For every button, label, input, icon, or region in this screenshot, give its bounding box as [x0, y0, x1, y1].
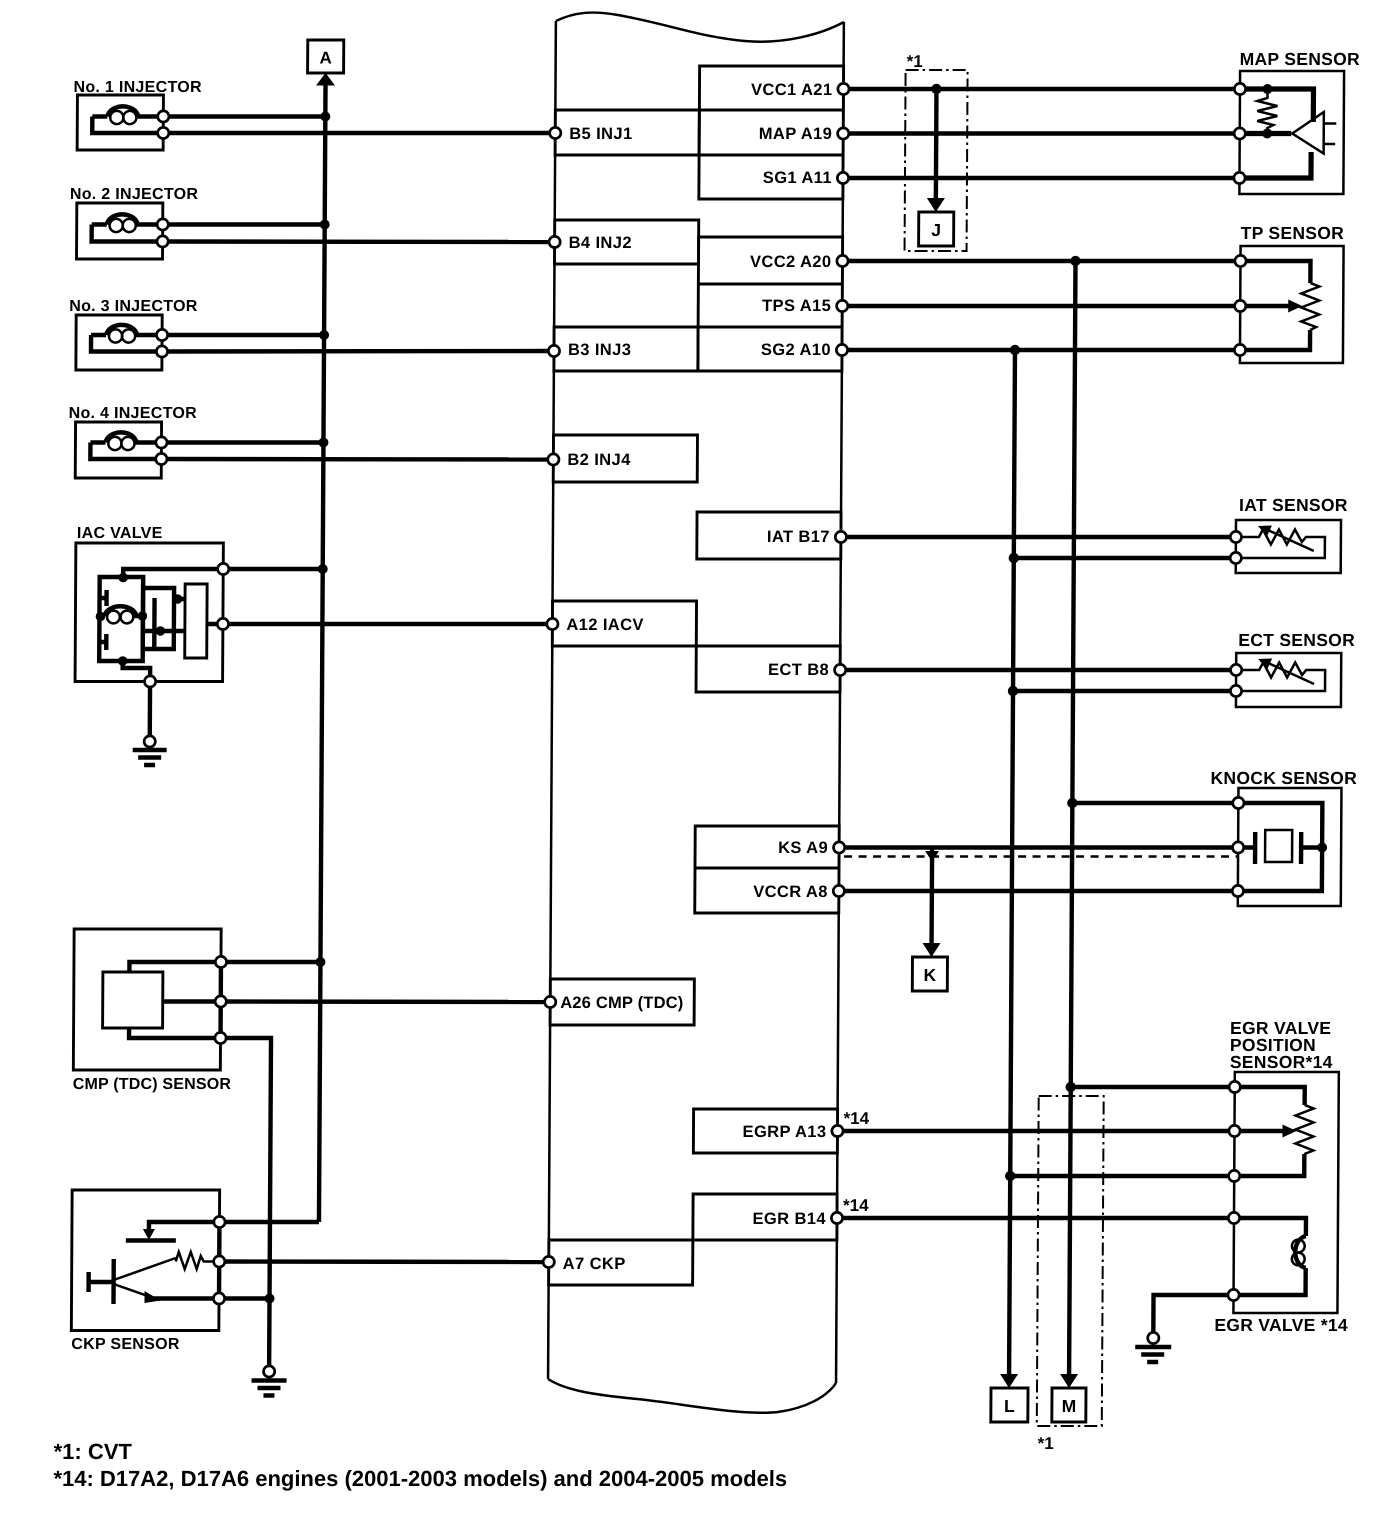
- TP sensor body: [1240, 246, 1344, 363]
- wire pin ECT B8 to ECT sensor: [840, 668, 1236, 672]
- junction L-line ECT: [1008, 686, 1018, 696]
- EGR pot resistor: [1295, 1105, 1313, 1154]
- IAC coil: [100, 606, 142, 616]
- injector No.3 body: [76, 315, 162, 370]
- wire CKP top terminal to A-line (corner): [219, 1220, 319, 1224]
- junction L-line on SG2 wire: [1010, 345, 1020, 355]
- EGR valve assembly body: [1233, 1072, 1338, 1313]
- ECT terminal circles: [1231, 664, 1242, 675]
- MAP sensor terminal circles: [1234, 83, 1245, 94]
- MAP amp output leads: [1324, 122, 1337, 125]
- wire CMP bottom terminal to ground bus: [219, 1038, 271, 1366]
- svg-text:ECT B8: ECT B8: [768, 661, 829, 679]
- MAP sensor body: [1239, 71, 1344, 194]
- svg-text:*1: CVT: *1: CVT: [54, 1439, 133, 1464]
- CKP terminal edge line: [217, 1216, 222, 1304]
- junction M-line on VCC2 wire: [1070, 256, 1080, 266]
- CMP terminal edge line: [218, 956, 223, 1044]
- svg-text:IAT SENSOR: IAT SENSOR: [1239, 495, 1348, 515]
- MAP amplifier triangle: [1292, 112, 1324, 154]
- L-line vertical bus (SG2 branch): [1009, 350, 1015, 1374]
- knock sensor body: [1238, 788, 1342, 906]
- pin box B5 INJ1: [555, 110, 699, 155]
- svg-text:B5 INJ1: B5 INJ1: [569, 125, 632, 143]
- page connector box L: [991, 1388, 1028, 1422]
- CMP (TDC) sensor body: [73, 929, 221, 1070]
- wire pin EGRP A13 to EGR pot wiper: [837, 1129, 1234, 1133]
- pin circle A7 CKP: [543, 1256, 554, 1267]
- IAT terminal circles: [1230, 531, 1241, 542]
- pin circles VCC2/TPS/SG2: [837, 255, 848, 266]
- svg-text:B4 INJ2: B4 INJ2: [569, 234, 632, 252]
- pin box IAT B17: [697, 512, 841, 559]
- pin box B3 INJ3: [554, 327, 698, 371]
- wire pin VCC2 A20 to TP sensor: [842, 259, 1240, 263]
- svg-text:No. 1 INJECTOR: No. 1 INJECTOR: [73, 79, 202, 96]
- svg-text:B2 INJ4: B2 INJ4: [567, 451, 631, 469]
- IAC inner top feed wire: [123, 569, 223, 578]
- svg-text:K: K: [924, 965, 937, 985]
- wire CKP bottom terminal to ground bus: [219, 1296, 270, 1300]
- svg-text:TP SENSOR: TP SENSOR: [1241, 223, 1345, 243]
- wire CMP top terminal to A-line: [221, 960, 321, 964]
- arrowhead pointing up into box A: [316, 73, 335, 86]
- ECM/PCM band torn-paper bottom edge: [548, 1379, 836, 1413]
- svg-text:ECT SENSOR: ECT SENSOR: [1238, 630, 1355, 650]
- page connector box M: [1052, 1388, 1086, 1422]
- CVT dash-dot box *1 bottom: [1037, 1096, 1104, 1426]
- wire injector No.4 upper terminal to A-line: [161, 440, 323, 444]
- IAC inner bottom wire to case terminal: [123, 661, 151, 682]
- CMP middle lead: [163, 999, 221, 1003]
- junction knock right node: [1317, 843, 1327, 853]
- injector No.1 body: [77, 95, 163, 150]
- svg-text:MAP SENSOR: MAP SENSOR: [1240, 49, 1361, 69]
- CKP coil resistor zigzag: [114, 1258, 176, 1280]
- junction M-line knock top: [1067, 798, 1077, 808]
- injector No.1 coil: [92, 106, 163, 116]
- injector No.2 body: [77, 203, 163, 259]
- CMP bottom lead: [129, 1028, 221, 1038]
- svg-text:B3 INJ3: B3 INJ3: [568, 341, 631, 359]
- arrowhead into box L: [1000, 1374, 1018, 1388]
- pin box ECT B8: [696, 646, 840, 692]
- svg-text:*14: *14: [843, 1196, 869, 1215]
- IAC actuator output wire to terminal: [207, 622, 223, 626]
- pin circles EGRP A13 / EGR B14: [832, 1125, 843, 1136]
- IAC driver bar upper-left: [100, 590, 107, 606]
- terminal circles injector No.2: [157, 219, 168, 230]
- knock element leads: [1238, 845, 1255, 849]
- junction L-line IAT: [1009, 553, 1019, 563]
- svg-text:*14: *14: [844, 1109, 870, 1128]
- EGR solenoid return lead: [1234, 1268, 1306, 1295]
- EGR solenoid feed lead: [1234, 1218, 1306, 1236]
- EGR ground wire: [1153, 1295, 1233, 1332]
- MAP resistor junction top: [1262, 84, 1272, 94]
- J branch wire: [934, 89, 939, 198]
- CKP core bar: [111, 1259, 116, 1304]
- pin circle B5 INJ1: [550, 127, 561, 138]
- wire injector No.4 lower terminal to pin B2 INJ4: [161, 457, 553, 462]
- svg-text:SG2 A10: SG2 A10: [761, 341, 831, 359]
- IAC wire inner frame to actuator lower: [143, 629, 185, 633]
- wire L-line to EGR pot bottom: [1010, 1174, 1234, 1178]
- pin box B2 INJ4: [553, 435, 697, 482]
- svg-text:*1: *1: [907, 52, 923, 71]
- svg-text:A: A: [319, 49, 331, 68]
- CKP bottom lead: [150, 1296, 220, 1300]
- injector No.2 return loop wire: [92, 225, 163, 242]
- ECT thermistor zigzag: [1236, 663, 1325, 692]
- connector pin box group KS/VCCR: [695, 826, 840, 913]
- wire pin SG2 A10 to TP sensor: [842, 348, 1240, 352]
- IAT thermistor arrow: [1269, 531, 1314, 552]
- wire pin KS A9 to knock sensor: [839, 845, 1238, 849]
- page connector box J: [919, 212, 954, 246]
- knock element left plate: [1253, 832, 1258, 864]
- IAC inner frame second: [143, 588, 174, 649]
- svg-text:SG1 A11: SG1 A11: [763, 169, 832, 187]
- wire injector No.1 lower terminal to pin B5 INJ1: [163, 131, 555, 135]
- ECT sensor body: [1236, 653, 1341, 707]
- IAC ground symbol: [144, 736, 155, 747]
- wire injector No.2 lower terminal to pin B4 INJ2: [163, 239, 555, 244]
- CMP top lead: [129, 962, 221, 972]
- pin circle A26 CMP (TDC): [545, 996, 556, 1007]
- knock internal bottom wire: [1238, 848, 1322, 892]
- svg-text:SENSOR*14: SENSOR*14: [1230, 1052, 1333, 1072]
- M-line vertical bus (VCC2 branch): [1069, 261, 1075, 1374]
- wire IAC top terminal to A-line: [223, 567, 322, 571]
- svg-text:CMP (TDC) SENSOR: CMP (TDC) SENSOR: [73, 1076, 232, 1093]
- svg-text:VCC1 A21: VCC1 A21: [751, 81, 833, 99]
- knock element crystal square: [1265, 830, 1292, 862]
- wire injector No.3 lower terminal to pin B3 INJ3: [162, 349, 554, 354]
- wire pin SG1 A11 to MAP sensor: [843, 176, 1239, 180]
- knock element right plate: [1299, 832, 1304, 864]
- wire CMP middle terminal to pin A26 CMP (TDC): [221, 999, 551, 1004]
- page connector box A: [308, 40, 344, 73]
- wire injector No.1 upper terminal to A-line: [163, 114, 325, 118]
- svg-text:EGR VALVE *14: EGR VALVE *14: [1214, 1315, 1348, 1335]
- page connector box K: [912, 957, 947, 991]
- svg-text:CKP SENSOR: CKP SENSOR: [71, 1336, 180, 1353]
- injector No.2 coil: [92, 214, 163, 224]
- TP potentiometer bottom lead: [1240, 330, 1310, 350]
- junction on VCC1 wire for J branch: [931, 84, 941, 94]
- wire pin MAP A19 to MAP sensor: [843, 131, 1240, 135]
- wire ECT sensor low side to L-line: [1013, 689, 1236, 693]
- EGR terminal circles: [1229, 1081, 1240, 1092]
- CMP terminal circles: [215, 956, 226, 967]
- svg-text:J: J: [931, 220, 941, 240]
- pin box B4 INJ2: [554, 220, 698, 264]
- wire pin TPS A15 to TP sensor: [842, 304, 1240, 308]
- IAT sensor body: [1236, 520, 1341, 573]
- pin circle ECT B8: [835, 664, 846, 675]
- injector No.1 return loop wire: [92, 117, 163, 134]
- svg-text:A12 IACV: A12 IACV: [566, 616, 644, 634]
- ECM/PCM band torn-paper top edge: [556, 13, 844, 42]
- MAP internal supply wire: [1240, 89, 1314, 122]
- CKP lower diagonal with arrowhead: [114, 1284, 151, 1297]
- knock terminal circles: [1233, 797, 1244, 808]
- EGR pot wiper arrow: [1234, 1129, 1284, 1133]
- K branch wire: [929, 849, 934, 943]
- MAP internal signal wire to amp: [1240, 131, 1292, 136]
- EGR pot bottom lead: [1234, 1154, 1304, 1176]
- svg-text:TPS A15: TPS A15: [762, 297, 831, 315]
- TP potentiometer top lead: [1240, 261, 1310, 283]
- IAC driver bar lower-left: [99, 634, 106, 650]
- CKP pole piece bar: [126, 1238, 176, 1242]
- pin box A12 IACV: [552, 601, 696, 646]
- connector pin box group VCC1/MAP/SG1: [699, 66, 844, 199]
- wire pin VCC1 A21 to MAP sensor: [843, 87, 1240, 91]
- MAP internal resistor: [1257, 93, 1277, 130]
- IAT thermistor zigzag: [1236, 530, 1325, 559]
- wire CKP middle terminal to pin A7 CKP: [219, 1259, 549, 1264]
- svg-text:VCC2 A20: VCC2 A20: [750, 253, 832, 271]
- svg-text:IAT B17: IAT B17: [767, 528, 830, 546]
- terminal circles injector No.3: [156, 329, 167, 340]
- junction CKP ground tee: [264, 1294, 274, 1304]
- TP sensor terminal circles: [1235, 255, 1246, 266]
- MAP internal ground wire: [1239, 152, 1311, 178]
- junction on A-line at injector No.2: [320, 220, 330, 230]
- injector No.4 coil: [90, 432, 161, 442]
- wire injector No.3 upper terminal to A-line: [162, 333, 324, 337]
- junction on A-line at injector No.3: [319, 330, 329, 340]
- arrowhead into box K: [922, 943, 940, 957]
- wire IAT sensor low side to L-line: [1014, 556, 1236, 560]
- arrowhead into box M: [1060, 1374, 1078, 1388]
- wire pin EGR B14 to EGR solenoid: [837, 1216, 1234, 1220]
- KS shield dashed line: [844, 855, 1237, 858]
- svg-text:No. 2 INJECTOR: No. 2 INJECTOR: [70, 186, 199, 203]
- arrowhead into box J: [927, 198, 945, 212]
- svg-text:VCCR A8: VCCR A8: [753, 883, 828, 901]
- svg-text:A7 CKP: A7 CKP: [563, 1255, 626, 1273]
- IAC valve body: [75, 543, 223, 682]
- IAC ground lead: [148, 687, 153, 736]
- CKP terminal circles: [214, 1216, 225, 1227]
- IAC wire inner frame to actuator upper: [174, 597, 185, 601]
- svg-text:KS A9: KS A9: [778, 839, 828, 857]
- MAP resistor junction bottom: [1262, 129, 1272, 139]
- injector No.3 coil: [91, 325, 162, 335]
- svg-text:EGR B14: EGR B14: [753, 1210, 827, 1228]
- injector No.4 return loop wire: [90, 443, 161, 460]
- CMP inner element square: [103, 972, 163, 1028]
- IAC terminal circles: [218, 563, 229, 574]
- svg-text:No. 3 INJECTOR: No. 3 INJECTOR: [69, 298, 198, 315]
- injector No.3 return loop wire: [91, 335, 162, 352]
- pin circles VCC1/MAP/SG1: [838, 83, 849, 94]
- wire pin IAT B17 to IAT sensor: [841, 535, 1236, 539]
- svg-text:L: L: [1004, 1396, 1015, 1416]
- wire pin VCCR A8 to knock sensor: [839, 889, 1238, 893]
- CVT dash-dot box *1 top: [905, 70, 968, 251]
- IAC driver bar middle: [152, 598, 157, 648]
- injector No.4 body: [75, 422, 161, 478]
- EGR pot top lead: [1235, 1087, 1305, 1105]
- junction L-line EGR pot bottom: [1005, 1171, 1015, 1181]
- svg-text:*1: *1: [1038, 1434, 1054, 1453]
- svg-text:IAC VALVE: IAC VALVE: [77, 525, 163, 542]
- junction on A-line at injector No.1: [320, 112, 330, 122]
- terminal circles injector No.4: [156, 437, 167, 448]
- pin circle B4 INJ2: [549, 236, 560, 247]
- A-line vertical bus: [319, 84, 326, 1222]
- wire M-line to knock sensor top: [1072, 801, 1238, 805]
- CKP sensor body: [71, 1190, 219, 1331]
- ECM/PCM connector band right edge: [836, 22, 844, 1383]
- IAC actuator rectangle: [185, 584, 207, 658]
- wire M-line to EGR pot top: [1071, 1085, 1235, 1089]
- svg-text:MAP A19: MAP A19: [759, 125, 833, 143]
- svg-text:No. 4 INJECTOR: No. 4 INJECTOR: [69, 405, 198, 422]
- K branch small arrow at KS wire: [925, 851, 939, 862]
- svg-text:A26 CMP (TDC): A26 CMP (TDC): [560, 994, 683, 1012]
- IAC coil end junctions: [96, 612, 106, 622]
- pin box EGRP A13: [693, 1109, 837, 1153]
- pin circles KS A9 / VCCR A8: [833, 842, 844, 853]
- terminal circles injector No.1: [158, 111, 169, 122]
- junction on A-line at IAC: [318, 564, 328, 574]
- wire injector No.2 upper terminal to A-line: [163, 222, 325, 226]
- CKP pickup top lead with arrow: [149, 1222, 220, 1231]
- junction M-line EGR pot top: [1066, 1082, 1076, 1092]
- svg-text:EGRP A13: EGRP A13: [743, 1123, 827, 1141]
- pin box EGR B14: [693, 1194, 837, 1240]
- CKP stub lead: [89, 1272, 114, 1292]
- pin circle B3 INJ3: [548, 345, 559, 356]
- svg-text:KNOCK SENSOR: KNOCK SENSOR: [1210, 768, 1357, 788]
- knock internal top wire: [1238, 803, 1322, 843]
- EGR ground symbol: [1148, 1332, 1159, 1343]
- ECT thermistor arrow: [1269, 664, 1314, 685]
- pin box A26 CMP (TDC): [550, 979, 694, 1025]
- svg-text:M: M: [1062, 1396, 1077, 1416]
- pin circle IAT B17: [835, 531, 846, 542]
- svg-text:*14: D17A2, D17A6 engines (200: *14: D17A2, D17A6 engines (2001-2003 mod…: [53, 1466, 787, 1491]
- TP wiper wire with arrow: [1240, 304, 1290, 308]
- sensor ground symbol: [263, 1366, 274, 1377]
- pin box A7 CKP: [549, 1240, 693, 1285]
- pin circle B2 INJ4: [548, 454, 559, 465]
- ECM/PCM connector band left edge: [548, 21, 556, 1379]
- pin circle A12 IACV: [547, 618, 558, 629]
- TP potentiometer resistor: [1301, 283, 1319, 330]
- connector pin box group VCC2/TPS/SG2: [698, 237, 843, 371]
- junction on A-line at CMP: [315, 957, 325, 967]
- wire IAC middle terminal to pin A12 IACV: [223, 622, 553, 626]
- EGR solenoid coil: [1295, 1236, 1306, 1268]
- IAC inner winding frame: [99, 577, 143, 661]
- junction on A-line at injector No.4: [318, 438, 328, 448]
